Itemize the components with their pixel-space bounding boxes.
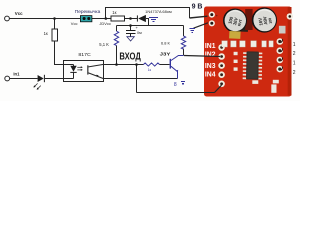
svg-text:2: 2 xyxy=(293,51,296,57)
svg-text:J3Y: J3Y xyxy=(160,52,171,57)
svg-text:IN1: IN1 xyxy=(205,43,216,50)
svg-text:Vcc: Vcc xyxy=(71,21,78,26)
svg-text:9 В: 9 В xyxy=(192,3,203,10)
svg-text:Vcc: Vcc xyxy=(15,11,23,16)
svg-text:6.8 К: 6.8 К xyxy=(161,40,170,45)
svg-text:IN2: IN2 xyxy=(205,51,216,58)
svg-text:817C: 817C xyxy=(78,52,91,57)
svg-text:0м: 0м xyxy=(137,31,142,35)
svg-text:ВХОД: ВХОД xyxy=(119,52,140,63)
svg-text:JDVcc: JDVcc xyxy=(99,21,111,26)
svg-text:1к: 1к xyxy=(44,31,48,36)
svg-text:IN4: IN4 xyxy=(205,71,216,78)
svg-text:1: 1 xyxy=(293,61,296,67)
svg-text:5,1 К: 5,1 К xyxy=(99,42,109,47)
svg-text:1: 1 xyxy=(293,42,296,48)
svg-text:IN3: IN3 xyxy=(205,63,216,70)
svg-text:1N4737A 68ом: 1N4737A 68ом xyxy=(145,10,172,14)
svg-text:In1: In1 xyxy=(13,72,20,77)
svg-text:8: 8 xyxy=(174,82,177,88)
svg-text:1к: 1к xyxy=(112,10,116,15)
svg-text:2: 2 xyxy=(293,70,296,76)
svg-text:Перемычка: Перемычка xyxy=(75,9,101,14)
